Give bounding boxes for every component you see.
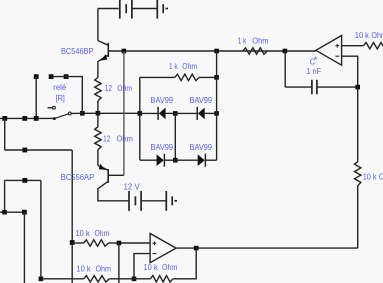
label R3 1 k Ohm bbox=[169, 62, 197, 71]
pin pad on y=212.2 bbox=[22, 210, 27, 215]
node rail-R4 junction bbox=[214, 49, 219, 54]
svg-text:Ohm: Ohm bbox=[182, 62, 197, 71]
op-amp U2 triangle bbox=[150, 234, 176, 263]
svg-text:Ohm: Ohm bbox=[95, 229, 110, 238]
wire base rail (Q1 base to op-amp U1 output) bbox=[108, 50, 316, 52]
svg-text:BAV99: BAV99 bbox=[190, 143, 213, 152]
wire diode row1 segment b bbox=[175, 112, 197, 114]
label relay [R] bbox=[56, 93, 65, 103]
svg-text:10 k: 10 k bbox=[76, 229, 91, 238]
relay coil pin 2 pad bbox=[49, 74, 54, 79]
diode D4 BAV99 (row2 right, cathode right) bbox=[198, 154, 217, 167]
relay coil pin 1 pad bbox=[34, 74, 39, 79]
svg-text:1 k: 1 k bbox=[238, 36, 247, 45]
wire Q2 base to rail vertical x=124 (gray) bbox=[123, 51, 125, 175]
transistor Q1 emitter lead with NPN arrow bbox=[98, 54, 108, 77]
wire diode block right vertical x=216.6 bbox=[216, 51, 218, 160]
svg-text:Ohm: Ohm bbox=[252, 36, 269, 45]
op-amp U1 triangle bbox=[316, 36, 342, 66]
pin pad on y=150 bbox=[22, 148, 27, 153]
resistor R6 10 k Ohm bbox=[355, 87, 361, 248]
wire U1 minus input to feedback node bbox=[342, 56, 358, 87]
wire diode block left vertical x=139.8 bbox=[139, 77, 141, 160]
pin pad relay pin4 bbox=[34, 116, 39, 121]
wire U2 plus input bbox=[119, 242, 150, 244]
svg-text:BC556AP: BC556AP bbox=[61, 173, 95, 182]
label D4 BAV99 bbox=[190, 143, 213, 152]
wire diode row1 segment a bbox=[140, 112, 158, 114]
svg-text:10 k: 10 k bbox=[363, 173, 378, 182]
wire switch common bbox=[71, 112, 82, 114]
label R5 10 k Ohm bbox=[355, 31, 383, 40]
label R7 10 k Ohm bbox=[76, 229, 110, 238]
battery B1 (supply, top) bbox=[98, 8, 119, 10]
label R4 1 k Ohm bbox=[238, 36, 269, 45]
resistor R1 12 Ohm (upper) bbox=[95, 78, 101, 114]
transistor Q2 BC556AP emitter lead with PNP arrow bbox=[98, 164, 108, 170]
node minus feedback junction bbox=[132, 277, 137, 282]
wire relay pin1 down bbox=[35, 77, 37, 119]
transistor Q2 collector lead bbox=[98, 181, 129, 201]
wire feedback bottom rail bbox=[196, 247, 358, 249]
resistor R9 10 k Ohm (U2 feedback) bbox=[151, 276, 174, 282]
svg-text:Ohm: Ohm bbox=[371, 31, 383, 40]
wire bottom rail segment a bbox=[41, 278, 84, 280]
svg-text:10 k: 10 k bbox=[355, 31, 370, 40]
wire U2 minus feedback L bbox=[134, 254, 150, 279]
op-amp U1 plus input marker bbox=[335, 44, 339, 48]
pin pad left edge bbox=[2, 116, 7, 121]
wire diode row2 segment b bbox=[175, 159, 197, 161]
label U1 C* bbox=[310, 55, 318, 67]
node diode row1 left junction bbox=[138, 111, 143, 116]
wire row y=180.4 bbox=[5, 179, 41, 181]
svg-text:12 V: 12 V bbox=[124, 182, 141, 191]
node diode row1 right junction bbox=[214, 111, 219, 116]
node R3 right junction bbox=[214, 75, 219, 80]
diode D3 BAV99 (row2 left, cathode right) bbox=[157, 154, 176, 167]
label D1 BAV99 bbox=[151, 96, 174, 105]
label relay rele bbox=[53, 83, 66, 92]
label R1 12 Ohm bbox=[105, 84, 132, 93]
battery B1 plates bbox=[120, 0, 168, 19]
svg-text:[R]: [R] bbox=[56, 93, 65, 103]
node R7 left junction bbox=[70, 240, 75, 245]
op-amp U1 minus input marker bbox=[335, 55, 339, 57]
label R9 10 k Ohm bbox=[144, 263, 178, 272]
label R8 10 k Ohm bbox=[76, 265, 111, 274]
resistor R8 10 k Ohm bbox=[84, 276, 110, 282]
transistor Q1 base bar bbox=[107, 43, 109, 57]
wire vertical x=24.4 bbox=[23, 212, 25, 283]
wire left rail y=118.4 bbox=[0, 117, 54, 119]
svg-text:12: 12 bbox=[103, 135, 111, 144]
wire long vertical x=72.2 bbox=[71, 150, 73, 283]
label B2 12 V bbox=[124, 182, 141, 191]
relay coil pin 3 pad bbox=[64, 74, 69, 79]
node rail-C1 junction bbox=[283, 49, 288, 54]
svg-text:10 k: 10 k bbox=[144, 263, 159, 272]
relay switch blade bbox=[53, 112, 71, 120]
wire U2 output bbox=[176, 247, 196, 249]
wire main mid rail y=113 bbox=[82, 112, 140, 114]
label BC556AP bbox=[61, 173, 95, 182]
node U2 output junction bbox=[194, 246, 199, 251]
svg-text:1 k: 1 k bbox=[169, 62, 178, 71]
node diode row1 mid junction bbox=[173, 111, 178, 116]
svg-text:10 k: 10 k bbox=[76, 265, 91, 274]
relay NO contact bbox=[48, 106, 56, 109]
svg-text:BAV99: BAV99 bbox=[190, 96, 213, 105]
wire B1 left lead down to Q1 collector bbox=[97, 9, 99, 41]
wire diode row2 segment a bbox=[140, 159, 157, 161]
svg-text:BAV99: BAV99 bbox=[151, 96, 174, 105]
wire relay coil top to switch node bbox=[51, 77, 82, 114]
node base-Q2 junction bbox=[122, 49, 127, 54]
svg-text:Ohm: Ohm bbox=[117, 84, 132, 93]
node diode row2 mid junction bbox=[173, 158, 178, 163]
pin pad on y=180.4 bbox=[22, 178, 27, 183]
wire diode block mid vertical x=175.3 bbox=[174, 113, 176, 160]
label D2 BAV99 bbox=[190, 96, 213, 105]
diode D1 BAV99 (row1 left, cathode left) bbox=[158, 107, 175, 120]
diode D2 BAV99 (row1 right, cathode left) bbox=[197, 107, 216, 120]
label C1 1 nF bbox=[306, 67, 321, 76]
svg-text:12: 12 bbox=[105, 84, 113, 93]
label R6 10 k Ohm bbox=[363, 173, 383, 182]
battery B2 12 V plates bbox=[129, 191, 177, 211]
node C1-feedback junction bbox=[355, 85, 360, 90]
node U2 plus input junction bbox=[117, 241, 122, 246]
wire vertical x=40.9 bbox=[40, 180, 42, 278]
svg-text:*: * bbox=[314, 55, 318, 66]
wire row y=212.2 bbox=[0, 211, 24, 213]
transistor Q2 base bar bbox=[107, 169, 109, 183]
svg-text:1 nF: 1 nF bbox=[306, 67, 321, 76]
capacitor C1 1 nF bbox=[285, 51, 358, 94]
op-amp U2 plus input marker bbox=[153, 241, 157, 245]
label D3 BAV99 bbox=[151, 143, 174, 152]
node R1-R2 junction bbox=[96, 111, 101, 116]
svg-text:BC546BP: BC546BP bbox=[61, 47, 93, 56]
transistor Q1 BC546BP collector lead bbox=[98, 41, 108, 46]
wire left vertical x=4.7 bbox=[4, 118, 6, 150]
node bottom rail left end bbox=[39, 277, 44, 282]
svg-text:relé: relé bbox=[53, 83, 66, 92]
label R2 12 Ohm bbox=[103, 135, 133, 144]
svg-text:Ohm: Ohm bbox=[96, 265, 112, 274]
resistor R7 10 k Ohm bbox=[72, 240, 119, 246]
wire Q2 base to rail horizontal bbox=[108, 174, 124, 176]
resistor R2 12 Ohm (lower) bbox=[95, 113, 101, 165]
wire plus node down bbox=[118, 243, 120, 283]
pin pad on left rail bbox=[22, 116, 27, 121]
svg-text:Ohm: Ohm bbox=[379, 173, 383, 182]
wire bottom rail segment c up to output bbox=[173, 248, 196, 279]
wire bottom rail segment b bbox=[109, 278, 150, 280]
svg-text:Ohm: Ohm bbox=[162, 263, 178, 272]
resistor R4 1 k Ohm bbox=[243, 48, 267, 54]
resistor R3 1 k Ohm bbox=[140, 74, 217, 80]
wire U1 plus input bbox=[342, 45, 364, 47]
wire left vertical x=4.6 lower bbox=[4, 180, 6, 212]
node left junction y=212.2 bbox=[2, 210, 7, 215]
resistor R5 10 k Ohm (top right, cut) bbox=[364, 43, 383, 49]
svg-text:BAV99: BAV99 bbox=[151, 143, 174, 152]
svg-text:Ohm: Ohm bbox=[117, 135, 134, 144]
label BC546BP bbox=[61, 47, 93, 56]
op-amp U2 minus input marker bbox=[153, 253, 157, 255]
wire row y=150 bbox=[5, 149, 73, 151]
node relay-switch junction bbox=[80, 111, 85, 116]
